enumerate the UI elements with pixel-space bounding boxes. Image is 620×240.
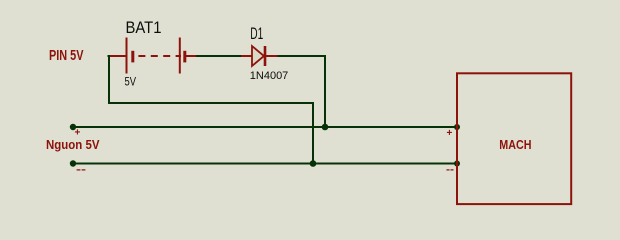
cathode bar: [264, 46, 267, 66]
wire: plus rail: [73, 126, 457, 128]
cathode lead: [266, 55, 278, 57]
pin lead left: [110, 55, 127, 57]
junction: battery branch on minus rail: [310, 160, 317, 167]
svg-text:+: +: [447, 128, 453, 139]
diode D1: [241, 46, 278, 66]
terminal dot minus rail left: [70, 160, 76, 166]
wire: battery left terminal down and across to bottom rail: [108, 56, 314, 164]
svg-text:PIN 5V: PIN 5V: [49, 48, 84, 64]
short plate 2: [183, 51, 186, 63]
junction: diode branch on plus rail: [322, 124, 329, 131]
battery BAT1: [110, 38, 196, 74]
triangle: [252, 46, 264, 66]
svg-text:1N4007: 1N4007: [250, 70, 288, 82]
svg-text:BAT1: BAT1: [126, 18, 162, 37]
pin lead right: [185, 55, 196, 57]
svg-text:5V: 5V: [125, 74, 137, 88]
pin dot at MACH minus: [454, 161, 460, 167]
svg-text:MACH: MACH: [499, 138, 531, 152]
svg-text:--: --: [76, 165, 86, 176]
wire: minus rail: [73, 163, 457, 165]
subcircuit box MACH: [457, 73, 571, 204]
svg-text:D1: D1: [250, 24, 263, 43]
wire: battery to diode: [196, 55, 241, 57]
pin dot at MACH plus: [454, 124, 460, 130]
short plate 1: [131, 51, 134, 63]
long plate 1: [126, 38, 128, 74]
long plate 2: [179, 38, 181, 74]
terminal dot plus rail left: [70, 124, 76, 130]
wire: diode to plus rail: [278, 56, 326, 127]
svg-text:--: --: [446, 165, 454, 176]
dashed link between cells: [138, 55, 181, 57]
anode lead: [241, 55, 252, 57]
svg-text:Nguon 5V: Nguon 5V: [46, 137, 100, 152]
